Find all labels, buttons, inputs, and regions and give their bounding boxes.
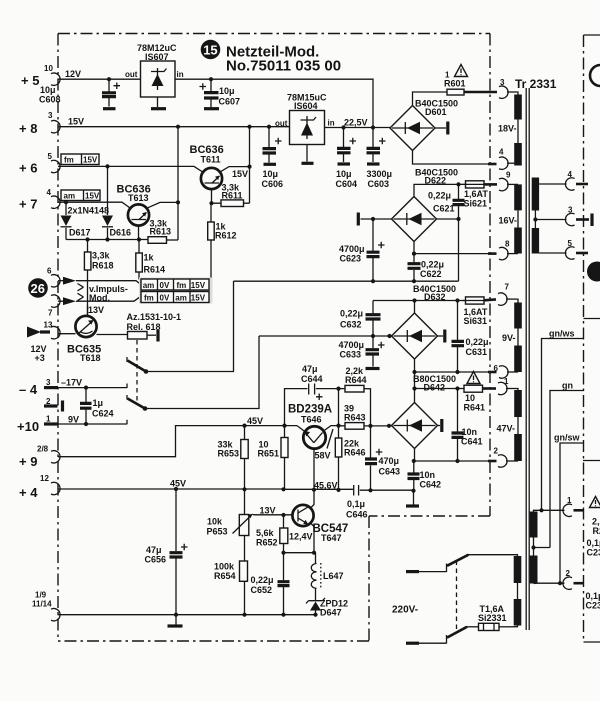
svg-text:10μ: 10μ: [40, 85, 56, 95]
relay switch contact 2: [126, 395, 128, 400]
wire 45.6V rail: [284, 488, 354, 490]
wire ground rail: [58, 614, 316, 616]
resistor R601: [447, 89, 464, 95]
svg-text:10μ: 10μ: [219, 86, 235, 96]
degauss link with tap: [533, 538, 535, 556]
capacitor C656: [175, 489, 177, 615]
svg-text:R653: R653: [218, 449, 240, 459]
degauss winding G1: [530, 512, 538, 538]
svg-text:out: out: [275, 119, 288, 128]
svg-text:in: in: [177, 70, 184, 79]
svg-text:T618: T618: [80, 353, 101, 363]
svg-text:L647: L647: [323, 571, 344, 581]
mains switch link dashed: [456, 561, 458, 633]
connector Tr pin 9: [499, 178, 508, 190]
resistor R651: [281, 438, 288, 458]
resistor R652: [280, 528, 288, 544]
svg-text:R612: R612: [215, 231, 237, 241]
wire pole B to fuse Si2331: [467, 626, 479, 628]
svg-text:10μ: 10μ: [263, 169, 279, 179]
svg-text:0,22μ: 0,22μ: [251, 575, 274, 585]
svg-text:10: 10: [44, 64, 53, 73]
svg-text:4700μ: 4700μ: [339, 340, 365, 350]
svg-text:Tr 2331: Tr 2331: [515, 77, 557, 91]
svg-text:12,4V: 12,4V: [289, 532, 313, 542]
svg-text:C652: C652: [251, 585, 273, 595]
connector Tr pin 7: [498, 293, 507, 305]
boxed labels am 0V fm 15V: [141, 279, 209, 290]
wire D642 - bottom to Tr pin 2: [414, 449, 490, 462]
svg-text:2/8: 2/8: [37, 445, 49, 454]
connector pin 1/9 11/14: [51, 609, 60, 621]
svg-text:6: 6: [494, 364, 499, 373]
svg-text:C633: C633: [340, 350, 362, 360]
wire v.Impuls line 1: [76, 281, 141, 285]
svg-text:T613: T613: [128, 193, 149, 203]
svg-text:Si621: Si621: [464, 199, 488, 209]
connector Tr pin 2: [498, 455, 507, 467]
diode D617 1N4148: [65, 202, 67, 215]
connector Tr pin 3: [499, 86, 508, 98]
wire C644/R644 node down to T646 collector node: [338, 389, 340, 426]
svg-text:C632: C632: [340, 320, 362, 330]
svg-text:0,22μ: 0,22μ: [428, 191, 451, 201]
chassis bar at pin 3': [590, 214, 593, 227]
module border cutout top (dash-dot): [369, 515, 490, 517]
svg-text:3300μ: 3300μ: [367, 169, 393, 179]
svg-text:2,2: 2,2: [592, 517, 600, 527]
svg-text:220V-: 220V-: [392, 605, 418, 616]
svg-text:C641: C641: [461, 437, 483, 447]
capacitor C643: [370, 426, 372, 490]
ground bar below C607: [204, 107, 219, 110]
svg-text:45V: 45V: [247, 416, 263, 426]
svg-text:7: 7: [48, 309, 53, 318]
connector pin 4': [565, 178, 574, 190]
svg-text:3: 3: [46, 378, 51, 387]
regulator IS604: [290, 111, 325, 145]
resistor R614: [136, 253, 143, 272]
connector +8 pin 3: [51, 121, 60, 133]
svg-text:10μ: 10μ: [336, 169, 352, 179]
svg-text:–17V: –17V: [61, 378, 82, 388]
wire D601 + output to R601: [413, 92, 448, 106]
resistor R646: [335, 438, 342, 457]
connector pin 7: [51, 295, 60, 307]
svg-text:3: 3: [48, 111, 53, 120]
svg-text:D601: D601: [425, 107, 447, 117]
wire am line to T613 base: [58, 202, 131, 208]
svg-text:R646: R646: [344, 448, 366, 458]
svg-text:3: 3: [568, 206, 573, 215]
svg-text:+ 6: + 6: [19, 161, 37, 176]
wire switch 1 to 0V rail: [146, 281, 234, 372]
module border left (dash-dot): [57, 34, 59, 642]
svg-text:C23: C23: [587, 548, 600, 558]
svg-text:5,6k: 5,6k: [256, 528, 275, 538]
relay switch contact 1: [126, 357, 128, 362]
right module border top: [584, 34, 600, 36]
wire D632 right corner to chassis bar: [438, 335, 444, 337]
resistor R653: [241, 440, 248, 459]
svg-text:15V: 15V: [191, 281, 206, 290]
wire D632 + output rail to fuse Si631: [373, 300, 466, 302]
capacitor C621: [458, 184, 460, 219]
svg-text:1,6AT: 1,6AT: [464, 189, 488, 199]
svg-text:26: 26: [31, 281, 45, 296]
svg-text:5: 5: [568, 239, 573, 248]
resistor R613: [148, 237, 167, 244]
svg-text:+ 5: + 5: [21, 73, 39, 88]
svg-text:+ 9: + 9: [19, 454, 37, 469]
svg-text:C603: C603: [368, 179, 390, 189]
wire W4' to pin 5': [539, 252, 566, 254]
connector pin 1': [563, 504, 572, 516]
svg-text:R2: R2: [593, 526, 600, 536]
potentiometer P653: [239, 515, 249, 536]
svg-text:12: 12: [40, 474, 49, 483]
svg-text:Mod.: Mod.: [89, 293, 110, 303]
svg-text:13: 13: [44, 321, 53, 330]
connector pin 6: [51, 275, 60, 287]
wire v.Impuls line 2: [76, 296, 141, 301]
svg-text:Rel. 618: Rel. 618: [127, 322, 161, 332]
wire emitter rail: [284, 552, 316, 554]
svg-text:am: am: [175, 294, 187, 303]
wire +5 to IS607 out: [58, 78, 141, 80]
svg-text:10k: 10k: [207, 517, 223, 527]
warning triangle R641: [467, 372, 480, 384]
wire +4 45V lower rail: [58, 488, 284, 490]
svg-text:0V: 0V: [160, 294, 170, 303]
winding W2 (18V lower): [514, 143, 522, 166]
svg-text:0,1μ: 0,1μ: [347, 499, 365, 509]
primary winding P2: [514, 599, 522, 626]
svg-text:R644: R644: [345, 375, 367, 385]
svg-text:gn: gn: [562, 381, 573, 391]
resistor R618: [84, 252, 91, 270]
transistor T618 BC635: [75, 316, 96, 337]
svg-text:D642: D642: [424, 383, 446, 393]
svg-text:C631: C631: [466, 347, 488, 357]
node junction dot C607: [209, 77, 213, 81]
fuse Si621: [466, 181, 485, 188]
svg-text:9: 9: [506, 171, 511, 180]
resistor R644: [345, 385, 364, 392]
resistor R612: [208, 222, 215, 240]
svg-text:gn/ws: gn/ws: [549, 329, 575, 339]
wire D622 right corner to C621/0V drop: [437, 219, 459, 281]
svg-text:12V: 12V: [65, 69, 81, 79]
svg-text:15V: 15V: [83, 156, 98, 165]
svg-text:P653: P653: [207, 527, 228, 537]
arrow into module (pin 7): [58, 300, 64, 302]
transformer core: [526, 88, 529, 630]
fuse Si2331: [479, 623, 500, 630]
bridge rectifier D642: [392, 403, 438, 449]
module border bottom (dash-dot): [58, 640, 369, 642]
connector +4 pin 12: [51, 482, 60, 494]
wire T618 emitter to relay: [97, 334, 128, 336]
wire 9V to switch 2 lower contact: [58, 420, 128, 425]
svg-text:0,22μ: 0,22μ: [421, 260, 444, 270]
svg-text:C624: C624: [92, 409, 114, 419]
resistor R641: [464, 385, 483, 392]
svg-text:45,6V: 45,6V: [314, 481, 338, 491]
node junction dots on 15V rail: [176, 125, 180, 129]
bridge rectifier D632: [392, 313, 438, 359]
wire T646 emitter down: [313, 449, 315, 490]
wire tap to pin 3': [535, 219, 566, 221]
transistor T613 BC636: [128, 204, 149, 225]
wire +9 to 45V rail: [58, 426, 297, 457]
svg-text:T646: T646: [301, 415, 322, 425]
wire D601 AC bottom to Tr pin 4: [413, 151, 490, 165]
label 58V with leader: [327, 429, 333, 449]
svg-text:3,3k: 3,3k: [92, 251, 111, 261]
svg-text:7: 7: [505, 283, 510, 292]
svg-text:4: 4: [568, 170, 573, 179]
svg-text:2x1N4148: 2x1N4148: [68, 206, 110, 216]
wire pole A to primary P1: [468, 554, 514, 556]
wire D622 left corner to chassis bar: [361, 218, 392, 220]
capacitor C632: [372, 301, 374, 337]
connector Tr pin 6: [499, 366, 508, 378]
wire D601 - right corner to chassis bar: [435, 127, 446, 129]
svg-text:C621: C621: [433, 204, 455, 214]
transistor T611 BC636: [201, 168, 222, 189]
svg-text:58V: 58V: [315, 451, 331, 461]
svg-text:0,22μ: 0,22μ: [466, 337, 489, 347]
wire D622 + output to fuse Si621: [414, 184, 466, 196]
fuse Si631: [466, 297, 485, 304]
wire fuse to primary P2: [499, 626, 514, 628]
right module border bottom: [584, 641, 600, 643]
capacitor C652: [283, 553, 285, 615]
svg-text:R654: R654: [214, 571, 236, 581]
svg-text:6: 6: [47, 267, 52, 276]
svg-text:C607: C607: [219, 97, 241, 107]
wire G1 top to pin 1': [534, 510, 565, 511]
capacitor C622: [413, 254, 415, 282]
mains switch pole A: [406, 570, 419, 573]
wire -17V to switch 1 lower contact: [58, 384, 127, 389]
svg-text:15V: 15V: [85, 192, 100, 201]
capacitor C603: [372, 128, 374, 163]
capacitor C641: [457, 389, 459, 462]
connector pin 5': [565, 247, 574, 259]
resistor R654: [240, 561, 248, 581]
svg-text:D616: D616: [110, 228, 132, 238]
svg-text:No.75011 035 00: No.75011 035 00: [226, 58, 341, 75]
regulator IS607: [141, 61, 176, 97]
warning triangle R601: [455, 65, 468, 77]
svg-text:R613: R613: [150, 227, 172, 237]
arrow into module (pin 6): [58, 280, 64, 282]
svg-text:R651: R651: [258, 449, 280, 459]
svg-text:+3: +3: [35, 353, 45, 363]
svg-text:4: 4: [47, 188, 52, 197]
transistor T646 BD239A: [303, 426, 325, 448]
winding link W5-W6: [517, 329, 519, 346]
svg-text:13V: 13V: [260, 506, 276, 516]
winding W8 (47V lower): [514, 434, 522, 461]
connector +5 pin 10: [51, 73, 60, 85]
resistor R643: [345, 423, 364, 430]
svg-text:0,22μ: 0,22μ: [340, 309, 363, 319]
svg-text:C644: C644: [301, 374, 323, 384]
svg-text:R643: R643: [344, 413, 366, 423]
state label boxes backdrop: [139, 278, 213, 304]
winding link W3'-W4' with tap: [534, 211, 536, 229]
connector Tr pin 8: [499, 247, 508, 259]
wire 22.5V rail to bridge D601: [325, 127, 392, 129]
badge circle 26: [28, 278, 48, 298]
svg-text:R611: R611: [222, 191, 243, 201]
svg-text:22,5V: 22,5V: [344, 118, 368, 128]
ground bar below C606: [264, 163, 277, 166]
wire D622 - bottom to Tr pin 8: [414, 242, 489, 254]
wire D642 + rail to R641: [415, 388, 465, 390]
boxed label fm 15V: [61, 154, 99, 165]
svg-text:9V: 9V: [68, 415, 79, 425]
svg-text:T647: T647: [321, 533, 342, 543]
svg-text:am: am: [143, 281, 155, 290]
transistor T647 BC547: [292, 505, 313, 526]
capacitor C624: [85, 388, 87, 424]
svg-text:5: 5: [48, 152, 53, 161]
wire G2 bottom to pin 2': [534, 582, 565, 584]
svg-text:15V: 15V: [232, 169, 248, 179]
wire diode cathode rail: [66, 239, 148, 241]
wire W3' to pin 4': [539, 183, 566, 185]
primary winding P1: [514, 556, 522, 583]
svg-text:+ 7: + 7: [19, 197, 37, 212]
svg-text:– 4: – 4: [19, 382, 38, 397]
svg-text:R601: R601: [444, 79, 466, 89]
boxed labels fm 0V am 15V: [141, 292, 209, 303]
svg-text:3: 3: [500, 78, 505, 87]
IS604 ground lead and bar: [306, 145, 308, 162]
capacitor C646: [354, 485, 359, 496]
svg-text:out: out: [125, 70, 138, 79]
capacitor C642: [413, 461, 415, 491]
svg-text:R641: R641: [464, 403, 486, 413]
connector pin 13 with external arrow: [51, 327, 60, 339]
wire fm line to T611 base: [58, 166, 204, 172]
svg-text:C604: C604: [336, 179, 358, 189]
relay coil Rel.618: [128, 332, 148, 340]
svg-text:16V-: 16V-: [499, 216, 518, 226]
svg-text:47V-: 47V-: [497, 424, 516, 434]
module border top (dash-dot): [58, 33, 490, 35]
wire 15V drop to T613 emitter and R613: [177, 127, 179, 240]
connector +7 pin 4: [51, 196, 60, 208]
svg-text:100k: 100k: [214, 562, 235, 572]
svg-text:D617: D617: [69, 228, 91, 238]
svg-text:15V: 15V: [191, 294, 206, 303]
wire switch 2 to C633 node: [145, 336, 259, 409]
right module wire y318: [584, 318, 600, 320]
svg-text:C623: C623: [340, 254, 362, 264]
svg-text:C23: C23: [586, 601, 600, 611]
wire 0V return rail: [234, 280, 459, 282]
module border cutout left (dash-dot): [368, 516, 370, 641]
svg-text:fm: fm: [64, 156, 74, 165]
svg-text:47μ: 47μ: [302, 364, 318, 374]
winding W3 (16V upper): [514, 184, 522, 210]
degauss winding G2: [530, 556, 538, 584]
svg-text:13V: 13V: [88, 305, 104, 315]
svg-text:Si631: Si631: [464, 316, 488, 326]
bridge rectifier D601: [390, 106, 435, 151]
wire 15V rail: [58, 126, 290, 128]
wire D632 left corner node: [259, 335, 392, 337]
wire pin13 to T618 base: [58, 333, 76, 335]
capacitor C644: [285, 389, 339, 426]
svg-text:2: 2: [566, 569, 571, 578]
node junction dot C608: [107, 77, 111, 81]
capacitor C606: [268, 127, 270, 163]
wire D642 right corner to chassis bar: [438, 425, 441, 427]
svg-text:fm: fm: [177, 281, 187, 290]
svg-text:10: 10: [465, 393, 475, 403]
connector pin 2': [563, 577, 572, 589]
inductor L647: [315, 553, 317, 564]
svg-text:R614: R614: [144, 265, 166, 275]
boxed label am 15V: [61, 190, 100, 201]
svg-text:10n: 10n: [462, 427, 478, 437]
svg-text:470μ: 470μ: [379, 456, 400, 466]
svg-text:C643: C643: [379, 467, 401, 477]
svg-text:9V-: 9V-: [502, 333, 516, 343]
bridge rectifier D622: [392, 197, 437, 242]
svg-text:gn/sw: gn/sw: [554, 433, 581, 443]
svg-text:fm: fm: [144, 294, 154, 303]
connector Tr pin 4: [499, 157, 508, 169]
winding W1 (18V upper): [514, 95, 522, 120]
wire 15V drop to T611 emitter and R611: [249, 127, 251, 204]
ground symbol: [175, 615, 177, 625]
svg-text:4: 4: [499, 148, 504, 157]
svg-text:1/9: 1/9: [35, 591, 47, 600]
svg-text:in: in: [328, 119, 335, 128]
resistor R611: [221, 200, 244, 207]
svg-text:R618: R618: [92, 261, 114, 271]
svg-text:Si2331: Si2331: [478, 613, 507, 623]
right module border left (dash-dot): [583, 35, 585, 642]
svg-text:C642: C642: [420, 480, 442, 490]
svg-text:C646: C646: [346, 510, 368, 520]
ground bar below C642 node: [413, 491, 415, 505]
right module badge circle (clipped): [590, 65, 600, 86]
winding link W7-W8: [517, 417, 519, 434]
svg-text:8: 8: [505, 240, 510, 249]
svg-text:15: 15: [203, 43, 217, 58]
relay actuation dashed link: [136, 340, 138, 404]
svg-text:IS607: IS607: [145, 52, 169, 62]
svg-text:11/14: 11/14: [32, 600, 52, 609]
svg-text:1: 1: [504, 377, 509, 386]
winding W6 (9V lower): [514, 346, 522, 373]
svg-text:0V: 0V: [160, 281, 170, 290]
secondary winding W3' right: [532, 178, 539, 211]
svg-text:1μ: 1μ: [93, 398, 104, 408]
winding W7 (47V upper): [514, 390, 522, 417]
wire IS607 in to 22.5V rail: [175, 79, 373, 127]
svg-text:2: 2: [494, 447, 499, 456]
capacitor C631: [457, 301, 459, 373]
